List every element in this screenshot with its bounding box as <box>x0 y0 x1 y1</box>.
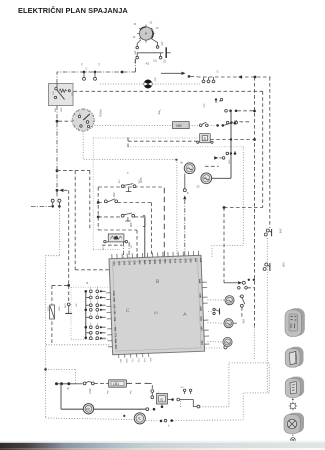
svg-text:B: B <box>87 281 89 285</box>
svg-text:C02: C02 <box>128 260 131 265</box>
svg-text:C0M: C0M <box>64 304 66 309</box>
svg-text:S: S <box>160 397 163 402</box>
svg-text:B03: B03 <box>148 260 151 265</box>
svg-text:A05: A05 <box>199 258 202 263</box>
svg-text:B05: B05 <box>143 260 146 265</box>
svg-text:A50: A50 <box>160 42 163 47</box>
svg-text:C: C <box>126 308 130 314</box>
svg-text:A11: A11 <box>173 259 176 264</box>
svg-text:Tmp: Tmp <box>158 110 161 115</box>
svg-text:01: 01 <box>154 311 158 315</box>
svg-text:LB1: LB1 <box>113 382 119 386</box>
svg-text:C00: C00 <box>133 260 136 265</box>
svg-text:A117: A117 <box>88 389 91 395</box>
svg-text:A55: A55 <box>112 193 115 198</box>
svg-text:PRED: PRED <box>99 110 103 117</box>
svg-text:C0M: C0M <box>112 291 115 296</box>
svg-text:A01: A01 <box>163 60 166 65</box>
svg-text:C0N: C0N <box>112 297 115 302</box>
svg-text:N06: N06 <box>114 339 117 344</box>
svg-text:C10: C10 <box>113 304 116 309</box>
svg-text:A04: A04 <box>168 259 171 264</box>
svg-text:A06: A06 <box>198 293 201 298</box>
svg-text:S7B: S7B <box>228 160 230 165</box>
svg-text:A13: A13 <box>179 259 182 264</box>
svg-text:BT6: BT6 <box>242 319 245 324</box>
svg-text:A03: A03 <box>200 340 203 345</box>
svg-text:A57: A57 <box>194 258 197 263</box>
svg-text:C03: C03 <box>122 261 125 266</box>
svg-text:B07: B07 <box>138 260 141 265</box>
svg-text:A08: A08 <box>198 279 201 284</box>
svg-text:SMI: SMI <box>279 229 283 234</box>
svg-text:B04: B04 <box>158 259 161 264</box>
svg-text:C05: C05 <box>117 261 120 266</box>
svg-text:C10: C10 <box>112 261 115 266</box>
svg-text:S: S <box>217 70 219 74</box>
svg-text:A1: A1 <box>146 62 150 66</box>
svg-text:B08: B08 <box>153 259 156 264</box>
svg-text:TB1: TB1 <box>113 327 116 332</box>
svg-text:ELEKTRIČNI PLAN SPAJANJA: ELEKTRIČNI PLAN SPAJANJA <box>18 6 128 15</box>
svg-text:CT1: CT1 <box>114 333 117 338</box>
svg-text:C83: C83 <box>184 258 187 263</box>
svg-text:A54: A54 <box>199 316 202 321</box>
svg-text:M: M <box>86 406 89 411</box>
svg-text:G: G <box>86 68 88 71</box>
svg-text:C09: C09 <box>113 317 116 322</box>
svg-text:908: 908 <box>282 263 286 268</box>
svg-text:B01: B01 <box>163 259 166 264</box>
svg-text:HE: HE <box>176 123 182 128</box>
svg-text:A05: A05 <box>199 306 202 311</box>
svg-text:S9B: S9B <box>129 223 132 228</box>
svg-text:A55: A55 <box>133 51 136 56</box>
svg-text:C02: C02 <box>189 258 192 263</box>
svg-text:2M: 2M <box>75 304 77 307</box>
svg-text:C8T: C8T <box>113 310 116 315</box>
svg-text:A07: A07 <box>200 326 203 331</box>
